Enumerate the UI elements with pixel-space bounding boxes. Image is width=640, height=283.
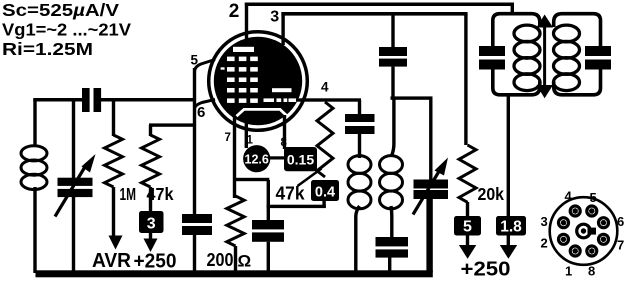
wire varcap2 top: [429, 98, 432, 180]
svg-text:7: 7: [617, 238, 624, 253]
resistor R2 47k wire: [149, 125, 152, 136]
tube V1 envelope: [209, 32, 308, 131]
capacitor grid decoupling: [182, 214, 212, 223]
svg-text:3: 3: [270, 8, 279, 25]
svg-text:AVR: AVR: [92, 249, 131, 272]
wire input top horizontal: [33, 98, 82, 102]
wire varcap bottom: [72, 196, 75, 273]
IFT2 secondary frame bottom: [554, 70, 601, 95]
capacitor IFT2 primary: [479, 46, 505, 56]
wire cap to rail: [193, 235, 196, 272]
resistor R1 1M: [105, 135, 123, 187]
svg-text:+250: +250: [461, 258, 511, 281]
svg-text:Ri=1.25M: Ri=1.25M: [2, 39, 93, 59]
wire pin4 cap vertical: [358, 100, 361, 114]
wire anode bus (pin2 to IFT2): [245, 3, 514, 7]
current box 0.4: [311, 180, 339, 201]
svg-text:3: 3: [147, 216, 156, 233]
svg-text:Sc=525µA/V: Sc=525µA/V: [2, 0, 119, 20]
svg-text:5: 5: [191, 53, 199, 68]
svg-text:47k: 47k: [276, 184, 306, 204]
wire 47k branch horizontal: [149, 123, 195, 126]
svg-text:1.8: 1.8: [500, 219, 522, 236]
wire screen cap bottom: [391, 67, 394, 98]
resistor R2 47k: [142, 135, 160, 187]
current box 5: [454, 216, 481, 236]
wire cathode horizontal: [233, 178, 269, 181]
capacitor IFT2 secondary: [585, 46, 611, 56]
wire IFT1 primary to rail: [356, 206, 360, 272]
wire varcap2 to rail thick: [426, 198, 432, 272]
tube V1 interior disk: [214, 37, 302, 125]
current box 3: [139, 211, 164, 233]
socket base diagram: [550, 197, 618, 265]
heater current box 0.15: [284, 147, 317, 171]
svg-text:2: 2: [229, 1, 240, 22]
svg-text:4: 4: [565, 189, 573, 204]
svg-text:4: 4: [321, 80, 329, 95]
capacitor IFT1 secondary: [376, 237, 409, 246]
IFT2 primary frame top: [493, 14, 540, 47]
svg-text:200: 200: [207, 250, 234, 270]
svg-text:20k: 20k: [478, 184, 505, 204]
wire 20k vertical: [464, 14, 467, 145]
pin 3 wire: [281, 12, 284, 45]
ground rail: [36, 270, 433, 277]
capacitor cathode bypass: [252, 220, 284, 229]
wire grid node vertical: [193, 68, 196, 215]
svg-text:2: 2: [541, 236, 548, 251]
inductor L1 antenna coil: [21, 146, 47, 161]
wire screen bus (pin3 to 20k): [281, 12, 467, 16]
resistor R1 1M wire: [112, 101, 115, 136]
resistor R4 47k (g3 feed): [317, 102, 333, 177]
capacitor series to coil: [345, 114, 375, 122]
pin 4 wire: [296, 98, 361, 101]
svg-text:8: 8: [588, 264, 595, 279]
wire R3 to rail: [234, 246, 237, 272]
wire cap top vertical: [267, 180, 270, 220]
IFT2 secondary frame top: [554, 14, 601, 47]
svg-text:1M: 1M: [120, 184, 137, 204]
svg-text:0.4: 0.4: [315, 185, 335, 201]
inductor IFT2 secondary coil: [554, 25, 580, 42]
wire coil top: [33, 99, 36, 147]
svg-text:1: 1: [247, 135, 254, 147]
current box 1.8: [496, 216, 526, 236]
wire box5 arrow: [466, 235, 469, 246]
wire IFT1 secondary top: [392, 98, 394, 156]
variable capacitor CV2: [414, 180, 449, 189]
svg-text:0.15: 0.15: [287, 152, 314, 168]
svg-text:6: 6: [197, 104, 205, 121]
wire cap bottom vertical: [267, 242, 270, 272]
variable capacitor CV1: [58, 178, 93, 186]
wire node horizontal: [391, 96, 433, 99]
svg-text:12.6: 12.6: [245, 152, 269, 166]
svg-text:5: 5: [463, 219, 472, 236]
wire R2 to box: [149, 187, 152, 212]
wire IFT1 secondary bottom: [389, 206, 393, 238]
heater voltage circle 12.6: [243, 145, 270, 172]
svg-text:6: 6: [617, 214, 624, 229]
pin 5 stub: [195, 60, 216, 73]
inductor IFT1 secondary: [380, 156, 403, 174]
coupling adjust arrow: [543, 24, 546, 88]
tube V1 electrodes (anode bar, grids, cathode): [233, 47, 254, 52]
wire IFT2 primary bottom vertical: [507, 95, 510, 216]
pin 2 wire: [245, 3, 248, 41]
wire R1 to AVR arrow: [112, 187, 115, 237]
resistor R3 200ohm: [227, 196, 244, 246]
capacitor screen decoupling: [379, 47, 407, 56]
svg-text:1: 1: [565, 264, 572, 279]
pin 6 stub: [195, 100, 216, 109]
resistor R5 20k: [459, 145, 476, 202]
svg-text:+250: +250: [134, 250, 177, 273]
wire screen cap top: [391, 14, 394, 47]
wire box 1.8 arrow: [507, 235, 510, 246]
wire coil bottom: [33, 187, 36, 273]
pin 1 wire: [245, 122, 248, 148]
svg-text:5: 5: [590, 190, 597, 205]
wire box 0.4 to cathode: [322, 201, 325, 209]
wire 20k to box: [466, 202, 469, 216]
pin 8 wire: [283, 115, 286, 149]
label pointer line: [298, 169, 322, 187]
inductor IFT2 primary coil: [514, 25, 540, 42]
svg-text:Ω: Ω: [238, 252, 252, 271]
wire varcap top: [72, 99, 75, 179]
wire IFT1 cap to rail: [388, 257, 391, 273]
svg-text:7: 7: [225, 132, 231, 144]
svg-text:Vg1=~2 ...~21V: Vg1=~2 ...~21V: [2, 19, 131, 39]
pin 7 wire: [233, 117, 236, 198]
svg-text:3: 3: [541, 214, 548, 229]
wire box3 arrow: [149, 232, 152, 240]
capacitor coupling C1: [82, 88, 90, 112]
inductor IFT1 primary: [348, 156, 371, 174]
wire heater bracket: [269, 156, 285, 159]
IFT2 primary frame bottom: [493, 70, 540, 95]
